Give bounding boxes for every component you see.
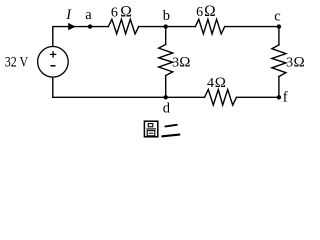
voltage source V1 32V circle bbox=[38, 47, 69, 78]
wire node c down to 3ohm right bbox=[278, 27, 280, 45]
resistor 4ohm (d-f) bbox=[205, 90, 237, 106]
svg-text:a: a bbox=[85, 7, 92, 23]
svg-text:3: 3 bbox=[172, 56, 179, 71]
svg-text:Ω: Ω bbox=[120, 3, 132, 20]
wire node b down to 3ohm bbox=[165, 27, 167, 45]
minus sign of source bbox=[50, 65, 55, 67]
wire 3ohm right to node f bbox=[278, 77, 280, 98]
wire 4ohm to node f bbox=[237, 96, 279, 98]
svg-text:d: d bbox=[163, 101, 171, 117]
svg-text:4: 4 bbox=[207, 76, 214, 91]
svg-text:c: c bbox=[274, 8, 280, 24]
node f bbox=[277, 95, 281, 99]
wire left vertical below source bbox=[52, 77, 54, 97]
svg-text:3: 3 bbox=[286, 56, 293, 71]
resistor 6ohm R2 (b-c) bbox=[195, 19, 224, 34]
svg-text:b: b bbox=[163, 8, 170, 24]
resistor 6ohm R1 (a-b) bbox=[108, 19, 138, 34]
current arrow I bbox=[68, 23, 76, 30]
node c bbox=[277, 24, 281, 28]
caption figure-2 character TU (drawn) bbox=[144, 121, 157, 137]
node a bbox=[88, 24, 92, 28]
resistor 3ohm right (c-f) bbox=[272, 45, 286, 77]
wire R2 to node c bbox=[225, 26, 279, 28]
wire between R1 and R2 bbox=[139, 26, 196, 28]
resistor 3ohm middle (b-d) bbox=[159, 44, 173, 75]
svg-text:Ω: Ω bbox=[204, 3, 216, 20]
node d bbox=[164, 95, 168, 99]
svg-text:f: f bbox=[283, 90, 288, 106]
svg-text:6: 6 bbox=[196, 5, 203, 20]
svg-text:6: 6 bbox=[111, 5, 118, 20]
wire top-left segment from source corner to resistor R1 bbox=[53, 27, 109, 47]
wire 3ohm middle to node d bbox=[165, 76, 167, 98]
plus sign of source bbox=[50, 51, 56, 58]
caption figure-2 character ER (drawn) bbox=[162, 125, 179, 137]
wire bottom from source corner to node d bbox=[53, 96, 205, 98]
svg-text:Ω: Ω bbox=[294, 55, 305, 71]
svg-text:Ω: Ω bbox=[215, 75, 226, 91]
svg-text:Ω: Ω bbox=[179, 55, 190, 71]
svg-text:32 V: 32 V bbox=[5, 54, 29, 70]
node b bbox=[164, 24, 168, 28]
